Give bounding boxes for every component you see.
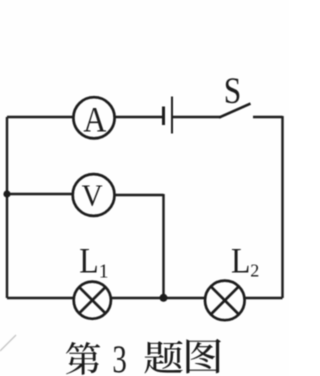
caption digit 3 [112, 338, 126, 376]
battery positive plate (long thin) [171, 97, 173, 134]
wire junction to lamp L2 [164, 297, 206, 299]
switch S lever arm [219, 104, 251, 118]
wire lamp L2 to right rail [244, 297, 283, 299]
lamp L2 circle [205, 281, 245, 321]
svg-text:3: 3 [112, 338, 126, 376]
wire ammeter to battery [115, 116, 162, 118]
ammeter label A [83, 101, 106, 140]
lamp L2 label subscript 2 [250, 261, 259, 281]
svg-text:A: A [83, 101, 106, 140]
svg-text:2: 2 [250, 261, 259, 281]
wire bottom rail left segment to lamp L1 [7, 297, 74, 299]
lamp L2 label L [231, 242, 250, 281]
wire right vertical rail [281, 116, 283, 298]
lamp L1 cross stroke NW-SE [79, 287, 105, 313]
wire battery to switch hinge [173, 116, 220, 118]
caption character 题 [144, 341, 182, 374]
svg-text:S: S [224, 71, 241, 112]
wire voltmeter to mid vertical [114, 194, 163, 196]
svg-text:L: L [231, 242, 250, 281]
lamp L1 label L [79, 242, 98, 281]
node junction dot on left rail at voltmeter tap [3, 190, 10, 197]
wire left rail to voltmeter [7, 193, 73, 195]
voltmeter label V [82, 178, 103, 213]
scan smudge left edge [0, 293, 2, 314]
wire lamp L1 to junction [111, 297, 164, 299]
lamp L1 circle [74, 282, 111, 319]
lamp L2 cross stroke NE-SW [211, 287, 238, 314]
battery negative plate (short thick) [162, 107, 165, 126]
lamp L1 label subscript 1 [99, 262, 109, 283]
scan smudge bottom-left diagonal [0, 335, 16, 351]
svg-text:1: 1 [99, 262, 109, 283]
voltmeter U2 circle [73, 174, 115, 216]
svg-text:V: V [82, 178, 103, 213]
svg-text:L: L [79, 242, 98, 281]
wire mid vertical down to bottom rail [162, 194, 164, 298]
caption character 第 [66, 342, 100, 375]
lamp L2 cross stroke NW-SE [211, 287, 238, 314]
caption character 图 [186, 339, 221, 374]
wire top rail left segment to ammeter [7, 116, 73, 118]
ammeter U1 circle [73, 97, 114, 138]
switch S label [224, 71, 241, 112]
lamp L1 cross stroke NE-SW [79, 287, 105, 313]
wire switch contact to top-right corner [253, 116, 283, 118]
node junction dot on bottom rail [160, 294, 168, 302]
wire left vertical rail [6, 117, 8, 298]
